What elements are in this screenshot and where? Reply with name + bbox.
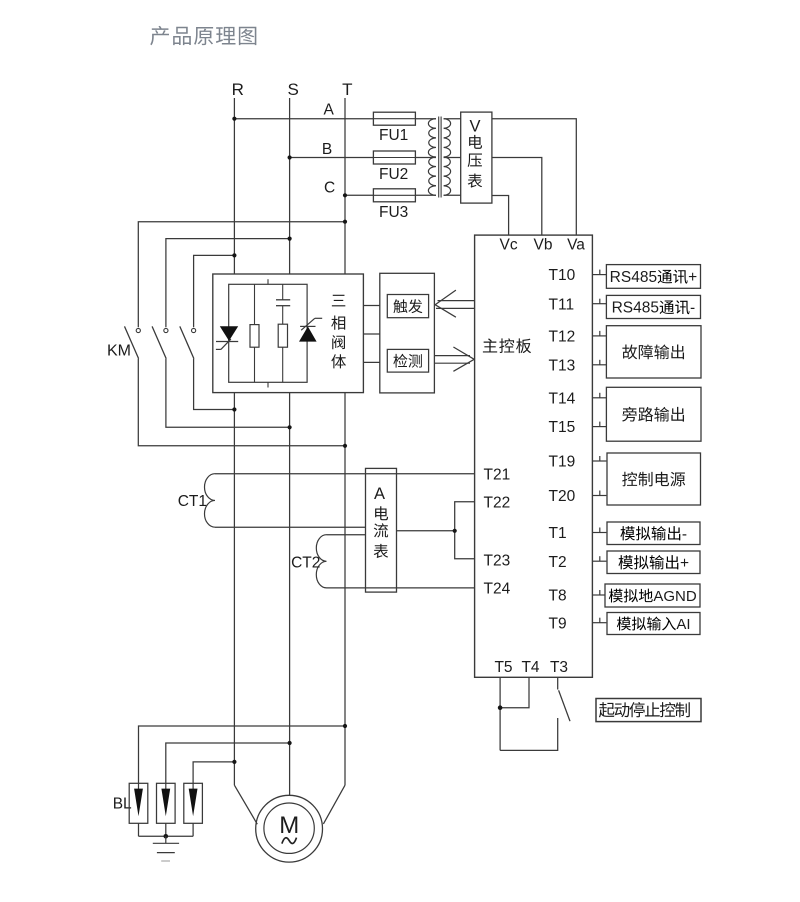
ammeter label 电流表 <box>374 506 388 558</box>
wire arrester 2 to bus <box>165 823 167 836</box>
switch start/stop blade <box>559 690 570 721</box>
terminal T9 connector <box>592 618 606 623</box>
node arrester 2 tap <box>288 741 292 745</box>
svg-text:-: - <box>682 526 687 543</box>
wire CT2 top <box>327 534 366 536</box>
wire phase S vertical <box>289 98 291 796</box>
wire T4 down and left <box>500 677 529 707</box>
wire CT1 bottom <box>215 526 366 528</box>
wire arrester 2 tap <box>166 743 290 783</box>
node KM3 bottom <box>232 407 236 411</box>
ground bus <box>139 835 194 837</box>
label 模拟输出+ <box>618 555 689 572</box>
box 模拟输入AI <box>607 613 700 635</box>
ammeter A 电流表 box <box>366 468 397 592</box>
svg-text:RS485: RS485 <box>612 300 659 317</box>
svg-text:T2: T2 <box>549 554 567 571</box>
node KM1 bottom <box>343 444 347 448</box>
resistor R1 body <box>250 325 259 348</box>
svg-text:CT2: CT2 <box>291 555 320 572</box>
svg-text:+: + <box>688 269 697 286</box>
wire bottom run to switch <box>500 718 558 750</box>
terminal T8 connector <box>592 590 606 595</box>
node A on R <box>232 117 236 121</box>
switch KM3 contact circle <box>192 328 196 332</box>
wire KM3 bottom run <box>194 359 235 410</box>
label 主控板 <box>483 338 531 353</box>
terminal T12 connector <box>592 331 606 336</box>
CT1 secondary winding <box>204 474 215 528</box>
wire T to motor <box>323 785 345 824</box>
arrester BL3 <box>184 783 203 823</box>
svg-text:T21: T21 <box>484 466 511 483</box>
main board 主控板 box <box>475 235 593 677</box>
wire valve to unit 2 <box>363 333 379 335</box>
svg-text:FU2: FU2 <box>379 166 408 183</box>
terminal T14 connector <box>592 393 606 398</box>
box 模拟输出- <box>607 522 700 545</box>
node B on S <box>288 155 292 159</box>
box 故障输出 <box>606 326 701 378</box>
svg-text:KM: KM <box>107 343 131 360</box>
wire phase R vertical <box>233 98 235 785</box>
box 旁路输出 <box>606 387 701 441</box>
svg-text:RS485: RS485 <box>610 269 657 286</box>
label 旁路输出 <box>622 407 684 422</box>
terminal T1 connector <box>592 528 606 533</box>
arrow main board to trigger <box>435 290 475 317</box>
svg-text:T22: T22 <box>484 494 511 511</box>
wire valve to unit 3 <box>363 361 379 363</box>
valve inner module box <box>229 284 307 382</box>
wire KM1 bottom run <box>138 359 345 446</box>
capacitor C1 <box>276 300 290 306</box>
wire arrester 1 to bus <box>138 823 140 836</box>
voltmeter V 电压表 box <box>461 112 492 203</box>
svg-text:+: + <box>680 555 689 572</box>
wire KM1 top run <box>138 222 345 328</box>
wire arrester 1 tap <box>139 726 346 783</box>
label 检测 <box>393 354 421 368</box>
wire phase T vertical <box>344 98 346 785</box>
valve module bottom stub <box>267 382 269 387</box>
terminal T10 connector <box>592 270 606 275</box>
svg-text:CT1: CT1 <box>178 493 207 510</box>
wire Vb <box>492 158 542 236</box>
svg-text:T14: T14 <box>549 390 576 407</box>
RC branch wire <box>282 284 284 382</box>
node KM1 top <box>343 220 347 224</box>
transformer core <box>439 117 441 198</box>
terminal T2 connector <box>592 556 606 561</box>
terminal T11 connector <box>592 299 606 304</box>
label 故障输出 <box>622 344 684 359</box>
wire FU1 to transformer <box>415 118 436 120</box>
fuse FU2 <box>373 151 415 164</box>
label 模拟输入AI <box>617 616 691 633</box>
node KM2 top <box>288 237 292 241</box>
svg-text:T10: T10 <box>549 267 576 284</box>
box 起动停止控制 <box>596 699 701 722</box>
wire R to motor <box>234 785 257 824</box>
voltmeter label 电压表 <box>468 135 482 188</box>
switch KM1 blade <box>125 326 139 358</box>
svg-text:Vb: Vb <box>534 237 553 254</box>
detect box 检测 <box>387 349 428 372</box>
wire T24 (CT2 bottom through ammeter) <box>327 587 475 589</box>
svg-text:FU3: FU3 <box>379 204 408 221</box>
label RS485通讯+ <box>610 269 697 286</box>
label 三相阀体 <box>331 295 346 369</box>
wire KM2 bottom run <box>166 359 290 428</box>
wire arrester 3 tap <box>193 762 234 783</box>
terminal T20 connector <box>592 491 606 496</box>
terminal T19 connector <box>592 456 606 461</box>
svg-text:T24: T24 <box>484 581 511 598</box>
label 模拟输出- <box>620 526 687 543</box>
wire T3 stub <box>557 677 559 689</box>
snubber resistor branch <box>254 284 256 382</box>
terminal T15 connector <box>592 422 606 427</box>
arrester BL1 <box>129 783 148 823</box>
wire secondary middle tap <box>444 157 461 159</box>
valve module top stub <box>267 279 269 284</box>
box RS485通讯- <box>606 295 700 318</box>
svg-text:T15: T15 <box>549 419 576 436</box>
wire valve to unit 1 <box>363 305 379 307</box>
title 产品原理图 <box>150 26 256 45</box>
transformer secondary winding <box>444 119 451 196</box>
box 模拟地AGND <box>605 584 700 607</box>
node KM2 bottom <box>288 425 292 429</box>
svg-text:T13: T13 <box>549 357 576 374</box>
wire B <box>290 157 374 159</box>
svg-text:T4: T4 <box>521 659 539 676</box>
node C on T <box>343 193 347 197</box>
resistor R2 body <box>278 324 287 347</box>
motor M circle <box>256 795 323 862</box>
wire FU2 to transformer <box>415 157 436 159</box>
node arrester 3 tap <box>232 760 236 764</box>
CT2 secondary winding <box>316 535 326 588</box>
wire arrester 3 to bus <box>192 823 194 836</box>
svg-text:-: - <box>690 300 695 317</box>
fuse FU3 <box>373 189 415 202</box>
switch KM3 blade <box>180 326 194 358</box>
arrow detect to main board <box>434 347 474 371</box>
wire C <box>345 194 373 196</box>
svg-text:Vc: Vc <box>500 237 518 254</box>
thyristor V1 (left, pointing down) <box>216 326 238 349</box>
svg-text:T12: T12 <box>549 329 576 346</box>
svg-text:T: T <box>342 80 352 99</box>
thyristor V2 (right, pointing up) <box>299 318 322 341</box>
wire Va <box>492 119 576 235</box>
wire T22 branch <box>455 502 475 559</box>
wire secondary top tap <box>444 118 461 120</box>
wire secondary bottom tap <box>444 194 461 196</box>
box RS485通讯+ <box>606 265 700 289</box>
ground symbol <box>153 836 179 861</box>
transformer primary winding <box>428 119 436 196</box>
svg-text:AGND: AGND <box>653 588 697 605</box>
switch KM2 blade <box>152 326 166 358</box>
svg-text:Va: Va <box>567 237 585 254</box>
node T4/T5 junction <box>498 705 503 710</box>
svg-text:AI: AI <box>676 616 690 633</box>
trigger-detect unit box <box>380 273 435 393</box>
wire ammeter to T22/T23 junction <box>397 530 455 532</box>
terminal T13 connector <box>592 360 606 365</box>
node arrester 1 tap <box>343 724 347 728</box>
wire T21 (CT1 top through ammeter) <box>215 473 475 475</box>
wire KM3 top run <box>194 255 235 327</box>
svg-text:FU1: FU1 <box>379 127 408 144</box>
svg-text:T20: T20 <box>549 488 576 505</box>
svg-text:C: C <box>324 180 335 197</box>
box 模拟输出+ <box>607 551 700 574</box>
svg-text:V: V <box>469 118 480 136</box>
label 控制电源 <box>622 472 685 487</box>
box 控制电源 <box>607 453 701 505</box>
node ground bus <box>164 834 169 839</box>
arrester BL2 <box>157 783 176 823</box>
trigger box 触发 <box>387 295 428 318</box>
wire KM2 top run <box>166 239 290 328</box>
svg-text:T11: T11 <box>549 296 575 313</box>
label 模拟地AGND <box>609 588 697 605</box>
svg-text:T3: T3 <box>550 659 568 676</box>
node T22/T23 junction <box>453 529 457 533</box>
label 起动停止控制 <box>599 702 690 717</box>
wire A <box>234 118 373 120</box>
svg-text:T8: T8 <box>549 588 567 605</box>
wire T5 down <box>499 677 501 750</box>
svg-text:T5: T5 <box>494 659 512 676</box>
label RS485通讯- <box>612 300 696 317</box>
switch KM1 contact circle <box>136 328 140 332</box>
switch KM2 contact circle <box>164 328 168 332</box>
svg-text:R: R <box>232 80 244 99</box>
wire FU3 to transformer <box>415 194 436 196</box>
svg-text:S: S <box>288 80 299 99</box>
svg-text:A: A <box>323 102 334 119</box>
svg-text:T9: T9 <box>549 615 567 632</box>
svg-text:T19: T19 <box>549 454 576 471</box>
node KM3 top <box>232 253 236 257</box>
fuse FU1 <box>373 112 415 125</box>
svg-text:T1: T1 <box>549 525 567 542</box>
label 触发 <box>393 299 422 313</box>
svg-text:A: A <box>374 485 385 503</box>
wire Vc <box>492 196 509 236</box>
svg-text:B: B <box>322 141 332 158</box>
valve body 三相阀体 box <box>213 274 364 393</box>
svg-text:T23: T23 <box>484 553 511 570</box>
motor label ~ <box>282 838 297 844</box>
svg-text:M: M <box>279 812 299 839</box>
